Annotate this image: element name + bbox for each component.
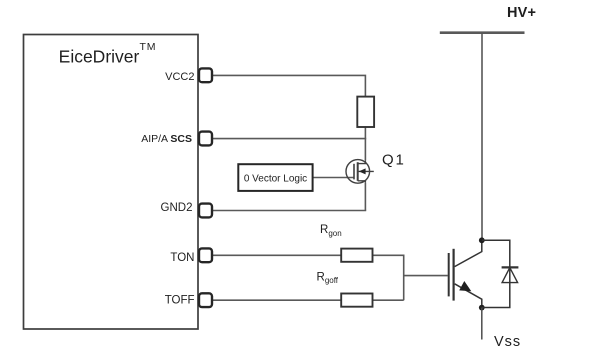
svg-text:GND2: GND2 xyxy=(161,202,193,214)
svg-text:EiceDriver: EiceDriver xyxy=(59,46,140,66)
svg-text:TOFF: TOFF xyxy=(165,295,195,307)
svg-text:AIP/A SCS: AIP/A SCS xyxy=(141,133,192,145)
svg-text:Vss: Vss xyxy=(494,334,521,350)
svg-text:HV+: HV+ xyxy=(507,5,536,21)
svg-text:Q1: Q1 xyxy=(382,152,406,169)
svg-text:TON: TON xyxy=(170,252,194,264)
svg-text:VCC2: VCC2 xyxy=(165,71,194,83)
svg-text:0 Vector Logic: 0 Vector Logic xyxy=(244,174,307,185)
svg-text:TM: TM xyxy=(140,41,157,53)
